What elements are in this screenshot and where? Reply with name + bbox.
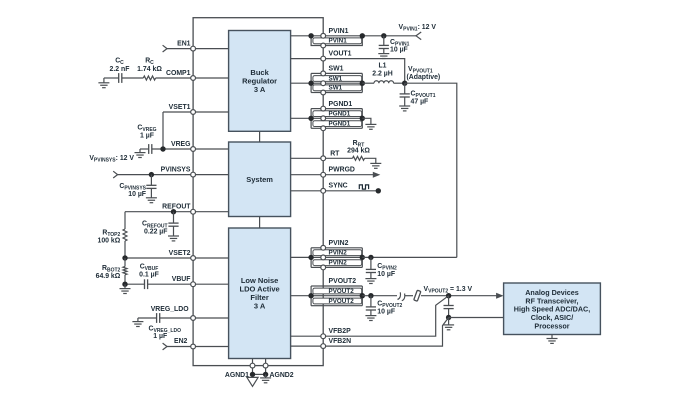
svg-text:PVIN2: PVIN2 <box>329 260 348 267</box>
wire PVOUT2 row1 <box>323 285 362 287</box>
wire AGND2 external <box>265 366 267 375</box>
wire PVIN1 inner bus <box>311 36 323 46</box>
capacitor CC <box>119 73 122 83</box>
wire VSET1 <box>163 111 229 113</box>
svg-text:AGND1: AGND1 <box>225 372 249 379</box>
pin PVOUT2 (paralleled, boxed label) <box>313 288 362 294</box>
wire SW1 row2 <box>323 82 362 84</box>
wire PVOUT2 rail <box>362 295 397 297</box>
wire AGND2 to outline <box>265 359 267 366</box>
svg-text:SYNC: SYNC <box>329 183 348 190</box>
wire EN1 <box>167 48 229 50</box>
pin COMP1 <box>191 76 196 81</box>
load block: Analog Devices RF transceiver etc <box>504 283 601 335</box>
wire CREFOUT to gnd <box>173 226 175 236</box>
ground RRT <box>370 163 381 168</box>
wire PGND1c stub <box>311 127 323 129</box>
wire SW1 outer bus <box>361 73 363 92</box>
wire PVIN1 rail <box>323 35 416 37</box>
node PVIN2 join <box>360 255 365 260</box>
wire L1 to node <box>394 82 405 84</box>
pin VFB2P <box>321 334 326 339</box>
ground CPVIN1 <box>378 54 389 59</box>
node PVOUT2 inner <box>308 293 313 298</box>
node RBOT2 bottom <box>122 282 127 287</box>
wire buck to SW1 <box>291 82 312 84</box>
wire CPVIN2 stem <box>370 257 372 269</box>
svg-text:EN1: EN1 <box>177 41 191 48</box>
wire REFOUT <box>125 211 229 213</box>
svg-text:SW1: SW1 <box>329 75 343 82</box>
pin VREG <box>191 147 196 152</box>
capacitor CREFOUT <box>168 223 178 226</box>
node PVIN2 inner <box>308 255 313 260</box>
node PGND1 inner <box>308 116 313 121</box>
pin AGND2 <box>263 363 268 368</box>
svg-text:SW1: SW1 <box>329 66 344 73</box>
wire CPVIN1 to gnd <box>383 49 385 54</box>
capacitor CPVOUT2 <box>366 307 376 310</box>
ground CPVINSYS <box>146 198 157 203</box>
pin PVINSYS <box>191 172 196 177</box>
wire sense cap stem bottom <box>448 309 450 318</box>
wire system to PWRGD <box>291 174 324 176</box>
ground CVREG <box>135 149 146 158</box>
svg-text:AGND2: AGND2 <box>270 372 294 379</box>
pin VSET1 <box>191 110 196 115</box>
pin PVOUT2 (paralleled, boxed label) <box>313 298 362 304</box>
wire VREG_LDO <box>160 317 229 319</box>
wire PGND1 outer bus <box>361 109 363 129</box>
svg-text:PGND1: PGND1 <box>329 121 351 128</box>
wire CPVINSYS to gnd <box>150 188 152 197</box>
svg-text:VSET1: VSET1 <box>169 104 191 111</box>
wire PVIN2 row1 <box>323 247 362 249</box>
pin PGND1 a <box>321 106 326 111</box>
wire load return to block <box>449 317 504 319</box>
svg-text:10 µF: 10 µF <box>377 271 395 278</box>
wire PVOUT2c stub <box>311 305 323 307</box>
wire PVIN2 row2 <box>323 256 362 258</box>
svg-text:0.1 µF: 0.1 µF <box>139 272 159 279</box>
svg-text:VOUT1: VOUT1 <box>329 51 352 58</box>
svg-text:SW1: SW1 <box>329 85 343 92</box>
wire LDO to VFB2N <box>291 345 324 347</box>
svg-text:3 A: 3 A <box>254 302 266 311</box>
svg-text:1 µF: 1 µF <box>153 333 167 340</box>
pin PVIN1 b <box>321 43 326 48</box>
wire SW1a stub <box>311 72 323 74</box>
node REFOUT cap tap <box>171 209 176 214</box>
node VSET2 divider tap <box>122 255 127 260</box>
wire load block gnd stem <box>551 335 553 339</box>
pin REFOUT <box>191 209 196 214</box>
svg-text:PVOUT2: PVOUT2 <box>329 288 355 295</box>
input chevron EN1 <box>163 45 167 52</box>
pin VBUF <box>191 282 196 287</box>
svg-text:VSET2: VSET2 <box>169 250 191 257</box>
node AGND2 <box>263 372 268 377</box>
input chevron PVINSYS <box>113 171 117 178</box>
svg-text:47 µF: 47 µF <box>411 99 429 106</box>
wire CPVOUT2 stem <box>370 296 372 307</box>
node SW1 to L1 <box>360 81 365 86</box>
svg-text:PVIN1: PVIN1 <box>329 38 348 45</box>
ground CPVIN2 <box>365 279 376 284</box>
svg-text:System: System <box>246 175 273 184</box>
pin SW1 c <box>321 90 326 95</box>
wire CC to RC <box>122 77 144 79</box>
pin PGND1 c <box>321 126 326 131</box>
wire CPVIN2 to gnd <box>370 273 372 279</box>
wire CPVOUT2 to gnd <box>370 310 372 316</box>
svg-text:PVINSYS: PVINSYS <box>161 166 191 173</box>
wire VBUF left <box>125 283 144 285</box>
svg-text:(Adaptive): (Adaptive) <box>407 74 441 81</box>
wire PVIN1 outer join <box>323 36 362 46</box>
pin PWRGD <box>321 172 326 177</box>
node PVIN1 join <box>360 33 365 38</box>
wire sense cap stem top <box>448 296 450 306</box>
wire to VVPOUT2 node and load <box>421 295 498 297</box>
pin PVIN1 (paralleled, boxed label) <box>313 38 362 44</box>
pin PVIN2 c <box>321 265 326 270</box>
wire VSET2 to RBOT2 <box>124 258 126 267</box>
wire PVINSYS <box>118 174 229 176</box>
svg-text:PGND1: PGND1 <box>329 101 353 108</box>
pin PVIN2 b <box>321 255 326 260</box>
svg-text:PVIN2: PVIN2 <box>329 240 349 247</box>
svg-text:PWRGD: PWRGD <box>329 167 355 174</box>
wire PVIN2 outer bus <box>361 248 363 268</box>
node PVINSYS cap tap <box>149 172 154 177</box>
svg-text:2.2 nF: 2.2 nF <box>110 66 130 73</box>
pin EN1 <box>191 46 196 51</box>
node CPVIN1 tap <box>381 33 386 38</box>
wire PVIN2c stub <box>311 266 323 268</box>
wire AGND1 to outline <box>252 359 254 366</box>
wire RTOP2 to VSET2 <box>124 241 126 258</box>
wire break symbol (PCB trace continues) <box>398 292 405 300</box>
wire VBUF <box>148 283 229 285</box>
ground PGND1 <box>365 124 376 129</box>
wire to trace element <box>405 295 413 297</box>
wire CPVINSYS stem <box>150 175 152 186</box>
pin PVIN2 (paralleled, boxed label) <box>313 260 362 266</box>
ground load block <box>547 339 558 344</box>
wire buck to PVIN1 <box>291 35 324 37</box>
svg-text:VREG_LDO: VREG_LDO <box>151 306 190 313</box>
capacitor CVREG <box>149 144 152 154</box>
wire SYNC <box>323 190 378 192</box>
node VVPOUT2 <box>446 293 451 298</box>
pin SW1 (paralleled, boxed label) <box>313 76 362 82</box>
svg-text:EN2: EN2 <box>174 338 188 345</box>
ground RBOT2 <box>120 284 131 293</box>
low noise LDO active filter block <box>229 228 291 359</box>
wire PGND1 inner bus <box>310 109 312 129</box>
wire PVOUT2 row2 <box>323 295 362 297</box>
pin VREG_LDO <box>191 316 196 321</box>
resistor RBOT2 <box>123 267 127 275</box>
wire system to RT <box>291 157 324 159</box>
inductor L1 <box>374 81 394 83</box>
pin PGND1 (paralleled, boxed label) <box>313 121 362 127</box>
svg-text:1 µF: 1 µF <box>140 133 154 140</box>
wire COMP1 left segment <box>104 77 119 79</box>
ground CREFOUT <box>168 236 179 241</box>
svg-text:VFB2N: VFB2N <box>329 338 352 345</box>
pin PGND1 b <box>321 116 326 121</box>
node SYNC terminal <box>376 188 381 193</box>
svg-text:2.2 µH: 2.2 µH <box>372 71 392 78</box>
capacitor CVBUF <box>145 279 148 289</box>
resistor RC <box>143 76 155 80</box>
node VREG/VSET1 tie <box>160 146 165 151</box>
svg-text:294 kΩ: 294 kΩ <box>347 148 370 155</box>
arrow PWRGD output <box>373 172 381 178</box>
wire VSET1 to VREG tie <box>162 112 164 149</box>
svg-text:PVIN1: PVIN1 <box>329 28 349 35</box>
ground CVREG_LDO <box>132 318 143 327</box>
node PGND1 join <box>360 116 365 121</box>
svg-text:PVIN2: PVIN2 <box>329 250 348 257</box>
wire AGND tie <box>253 373 266 375</box>
svg-text:3 A: 3 A <box>254 85 266 94</box>
pin PVIN2 a <box>321 245 326 250</box>
node AGND1 <box>250 372 255 377</box>
SYNC pulse waveform glyph <box>359 185 368 189</box>
wire PWRGD <box>323 174 373 176</box>
ground COMP1 network <box>98 78 109 88</box>
node VPVOUT1 <box>402 81 407 86</box>
buck regulator block <box>229 31 291 132</box>
svg-text:COMP1: COMP1 <box>166 70 191 77</box>
svg-text:VBUF: VBUF <box>172 276 191 283</box>
capacitor CVREG_LDO <box>157 313 160 323</box>
ground AGND2 <box>260 374 271 382</box>
wire SW1 inner bus <box>310 73 312 92</box>
svg-text:0.22 µF: 0.22 µF <box>144 229 168 236</box>
wire PVIN2b stub <box>311 256 323 258</box>
ground at load <box>443 318 454 330</box>
wire PGND1 to gnd <box>362 118 371 124</box>
svg-text:PVOUT2: PVOUT2 <box>329 298 355 305</box>
node CPVOUT2 tap <box>368 293 373 298</box>
svg-text:10 µF: 10 µF <box>377 308 395 315</box>
wire VREG gnd side <box>140 148 149 150</box>
node CPVIN2 tap <box>368 255 373 260</box>
wire LDO to PVOUT2 <box>291 295 312 297</box>
pin RT <box>321 156 326 161</box>
wire RBOT2 to VBUF net <box>124 275 126 284</box>
pin PVIN2 (paralleled, boxed label) <box>313 250 362 256</box>
wire VFB2N sense <box>323 318 448 347</box>
node PVIN1 inner <box>308 33 313 38</box>
wire to RTOP2 <box>124 212 126 229</box>
wire AGND1 external <box>252 366 254 375</box>
node SW1 inner <box>308 81 313 86</box>
pin AGND1 <box>250 363 255 368</box>
arrow into load <box>496 293 504 299</box>
node load return <box>446 315 451 320</box>
wire buck VOUT1 inner <box>291 58 324 60</box>
wire CPVOUT1 stem <box>404 83 406 94</box>
wire RT <box>323 157 352 159</box>
wire SW1b stub <box>311 82 323 84</box>
wire COMP1 to buck <box>156 77 229 79</box>
wire PVOUT2b stub <box>311 295 323 297</box>
pin VOUT1 <box>321 56 326 61</box>
svg-text:REFOUT: REFOUT <box>162 204 191 211</box>
wire VPVOUT1 feed to PVIN2 <box>405 83 457 257</box>
ground CPVOUT1 <box>399 106 410 111</box>
capacitor CPVIN2 <box>366 269 376 272</box>
wire RRT to gnd <box>365 158 376 163</box>
wire PVOUT2a stub <box>311 285 323 287</box>
svg-text:PGND1: PGND1 <box>329 111 351 118</box>
input chevron EN2 <box>163 343 167 350</box>
pin VFB2N <box>321 344 326 349</box>
wire CPVOUT1 to gnd <box>404 97 406 106</box>
wire VREG_LDO left <box>138 317 157 319</box>
svg-text:1.74 kΩ: 1.74 kΩ <box>137 66 162 73</box>
wire PVIN2 row3 <box>323 266 362 268</box>
wire PVOUT2 outer bus <box>361 286 363 306</box>
capacitor CPVOUT1 <box>400 94 410 97</box>
wire CREFOUT stem <box>173 212 175 223</box>
pin PVIN1 a <box>321 33 326 38</box>
wire LDO to PVIN2 <box>291 256 312 258</box>
wire VREG <box>152 148 229 150</box>
wire VSET2 <box>125 257 229 259</box>
svg-text:L1: L1 <box>378 62 386 69</box>
svg-text:RT: RT <box>330 150 340 157</box>
system block <box>229 142 291 217</box>
wire VFB2P sense <box>323 296 448 337</box>
svg-text:Processor: Processor <box>534 322 569 331</box>
wire LDO to VFB2P <box>291 335 324 337</box>
node PVOUT2 join <box>360 293 365 298</box>
wire PVIN2 rail <box>362 256 457 258</box>
pin VSET2 <box>191 256 196 261</box>
wire CPVIN1 stem <box>383 36 385 46</box>
source chevron VPVIN1 <box>416 32 421 40</box>
pin SW1 (paralleled, boxed label) <box>313 85 362 91</box>
svg-text:10 µF: 10 µF <box>390 47 408 54</box>
wire VOUT1 to output node <box>323 59 405 84</box>
svg-text:100 kΩ: 100 kΩ <box>98 238 121 245</box>
svg-text:64.9 kΩ: 64.9 kΩ <box>96 273 121 280</box>
IC package outline <box>193 18 323 366</box>
wire system-LDO connector <box>259 217 261 229</box>
wire PGND1 row1 <box>323 108 362 110</box>
wire PGND1a stub <box>311 108 323 110</box>
wire SW1 row1 <box>323 72 362 74</box>
wire SW1 row3 <box>323 92 362 94</box>
analog ground AGND1 <box>247 377 258 386</box>
capacitor CPVIN1 <box>379 45 389 48</box>
wire PGND1 row3 <box>323 127 362 129</box>
pin SW1 b <box>321 81 326 86</box>
wire PVOUT2 inner bus <box>310 286 312 306</box>
svg-text:10 µF: 10 µF <box>128 191 146 198</box>
capacitor point-of-load <box>444 306 454 309</box>
wire PVIN2 inner bus <box>310 248 312 268</box>
wire EN2 <box>167 346 229 348</box>
wire PVOUT2 row3 <box>323 305 362 307</box>
pin SYNC <box>321 188 326 193</box>
pin PGND1 (paralleled, boxed label) <box>313 111 362 117</box>
wire PGND1 row2 <box>323 117 362 119</box>
PCB trace parasitic element (slanted rectangle) <box>414 290 421 301</box>
wire buck-system connector <box>259 131 261 142</box>
svg-text:VFB2P: VFB2P <box>329 328 352 335</box>
resistor RTOP2 <box>123 229 127 241</box>
svg-text:PVOUT2: PVOUT2 <box>329 278 357 285</box>
wire PGND1b stub <box>311 117 323 119</box>
pin SW1 a <box>321 71 326 76</box>
svg-text:VREG: VREG <box>171 141 191 148</box>
wire to L1 <box>362 82 374 84</box>
wire buck to PGND1 <box>291 117 312 119</box>
capacitor CPVINSYS <box>146 185 156 188</box>
resistor RRT <box>353 156 365 160</box>
ground CPVOUT2 <box>365 316 376 321</box>
wire system to SYNC <box>291 190 324 192</box>
wire SW1c stub <box>311 92 323 94</box>
wire PVIN2a stub <box>311 247 323 249</box>
pin EN2 <box>191 344 196 349</box>
